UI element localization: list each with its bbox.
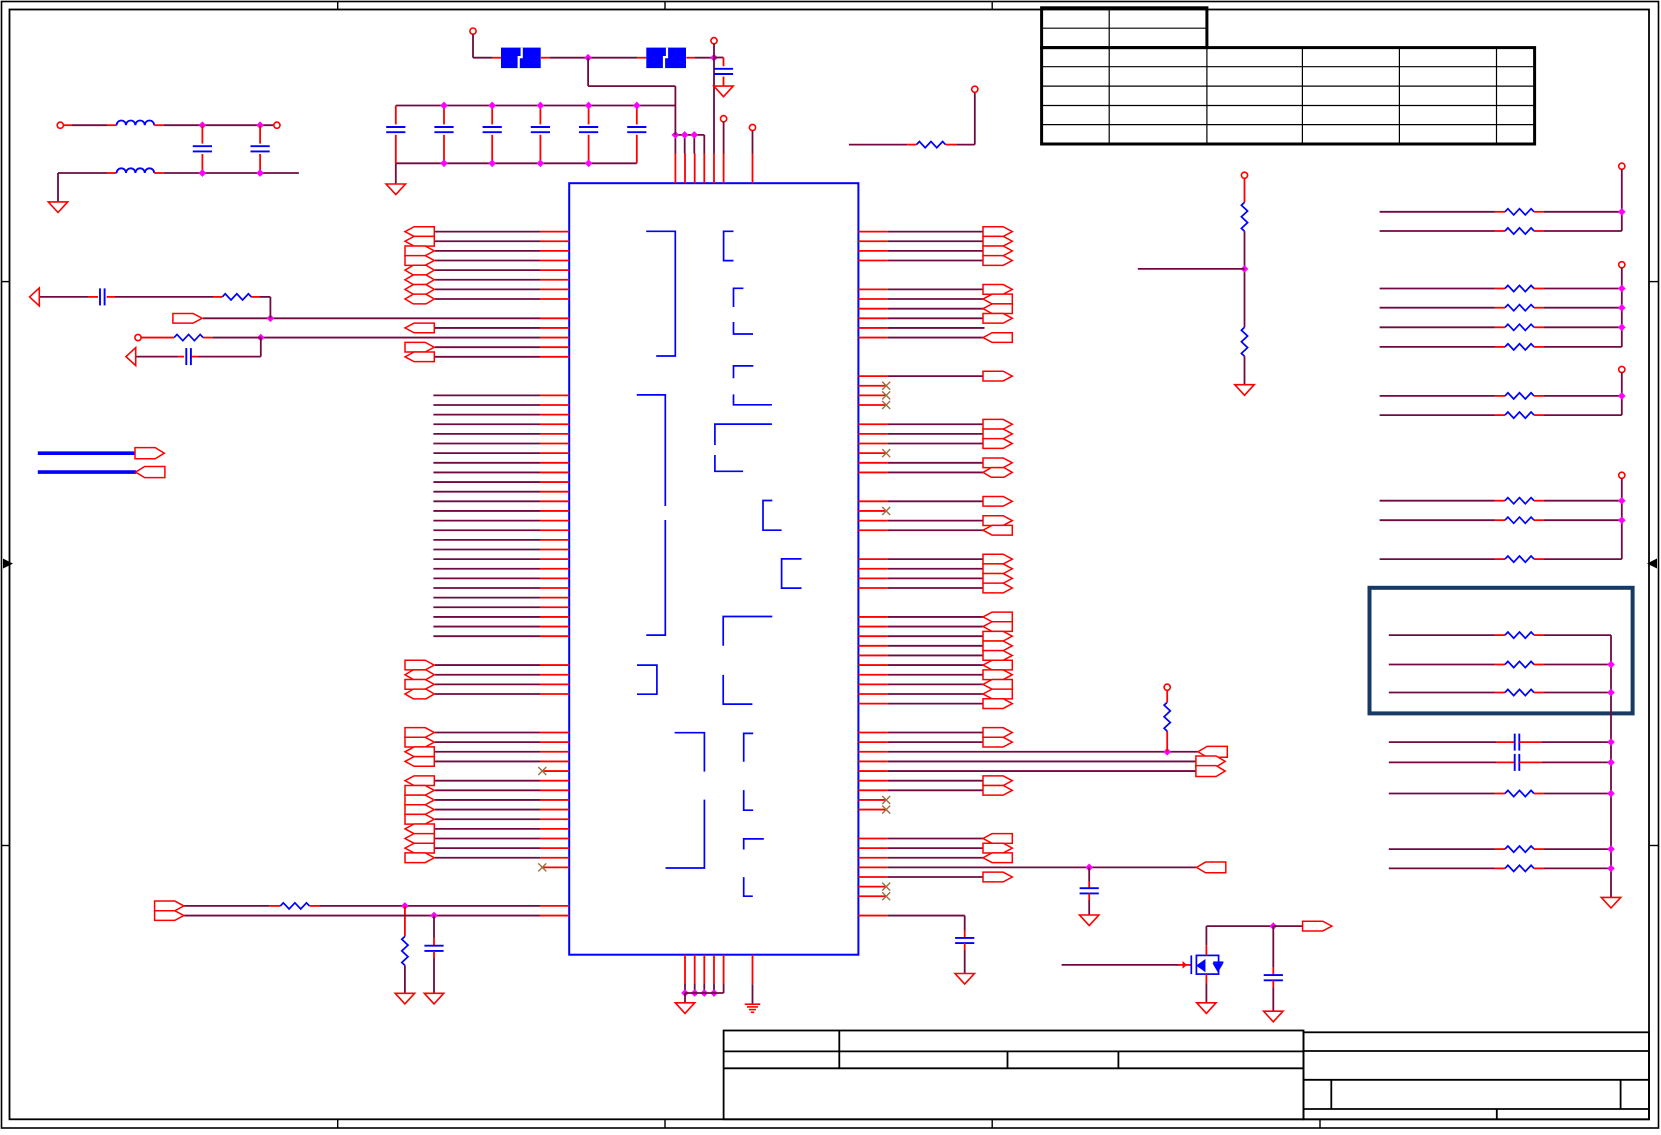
junction [440,102,448,110]
bus signal wire [433,568,540,570]
bus signal wire [433,616,540,618]
connector flag [983,612,1012,622]
centre marker left [3,559,13,569]
pin stub [540,452,569,454]
border zone tick top 3 [991,2,993,10]
bus signal wire [433,394,540,396]
connector flag [983,641,1012,651]
pin stub [540,404,569,406]
connector flag [983,574,1012,584]
resistor [1505,846,1534,852]
bus wire [38,451,136,455]
pin stub [858,857,887,859]
bus signal wire [433,491,540,493]
source stub [1205,974,1207,983]
wire [964,950,966,974]
termination resistor wire [1380,395,1495,397]
wire [433,916,435,939]
ground [955,974,974,985]
connector flag [405,680,434,690]
junction [633,102,641,110]
border zone tick bottom 3 [991,1119,993,1128]
no-connect [882,806,890,814]
connector flag [983,304,1012,314]
U1 internal bracket C3 [734,322,754,334]
border zone tick top 1 [337,2,339,10]
long net wire [888,866,1197,868]
connector flag [983,554,1012,564]
junction [681,131,689,139]
pin stub [540,481,569,483]
resistor [1505,661,1534,667]
no-connect pin stub [542,770,569,772]
pin stub [540,799,569,801]
pin stub [858,664,887,666]
wire [684,984,686,993]
wire [713,44,715,58]
pin stub [540,394,569,396]
no-connect [882,883,890,891]
net wire row k9 [203,317,540,319]
U1 right pin net wire [888,635,985,637]
series capacitor wire [1389,741,1496,743]
wire [1544,519,1622,521]
bus signal wire [433,452,540,454]
capacitor C9 [483,127,502,132]
connector flag [983,872,1012,882]
termination resistor [1505,209,1534,215]
connector flag [983,525,1012,535]
wire [1544,414,1622,416]
pin stub [858,645,887,647]
wire [1244,231,1246,327]
connector flag [983,631,1012,641]
pin stub [858,471,887,473]
port [711,38,717,44]
ground [714,86,733,97]
ground [675,1003,694,1014]
U1 left pin net wire [435,683,540,685]
bus signal wire [433,587,540,589]
U1 right pin net wire [888,616,985,618]
capacitor C4 [1080,888,1099,893]
net wire [849,144,907,146]
U1 left pin net wire [435,818,540,820]
termination resistor [1505,305,1534,311]
U1 right pin net wire [888,847,985,849]
pin stub [858,317,887,319]
bus signal wire [433,558,540,560]
U1 right pin net wire [888,529,985,531]
junction [257,334,265,342]
connector flag [983,516,1012,526]
capacitor C13 [193,146,212,151]
wire [1621,479,1623,560]
pin stub [540,635,569,637]
connector flag [405,323,434,333]
pin stub [540,828,569,830]
connector flag [983,256,1012,266]
wire [1088,867,1090,881]
resistor R1 [222,294,251,300]
net wire [888,915,965,917]
connector flag [983,660,1012,670]
junction [1618,516,1626,524]
capacitor C3 [424,946,443,951]
connector flag [405,776,434,786]
U1 right pin net wire [888,626,985,628]
connector flag [405,352,434,362]
border zone tick top 2 [664,2,666,10]
bus signal wire [433,481,540,483]
termination resistor wire [1380,326,1495,328]
capacitor [1515,754,1520,771]
U1 right pin net wire [888,741,985,743]
U1 right pin net wire [888,645,985,647]
bus connector flag [135,448,164,459]
series resistor wire [1389,692,1495,694]
connector flag [983,458,1012,468]
junction [710,54,718,62]
pin stub [703,955,705,984]
U1 right pin net wire [888,462,985,464]
connector flag [155,901,184,911]
cap pin stub [443,106,445,125]
pin stub [858,587,887,589]
wire [1244,356,1246,385]
wire [674,135,676,154]
pin stub [540,269,569,271]
cap pin stub [395,135,397,164]
connector flag [405,689,434,699]
U1 left pin net wire [435,799,540,801]
ground [1197,1003,1216,1014]
connector flag [983,583,1012,593]
U1 internal bracket C10 [744,733,754,761]
wire [752,131,754,154]
connector flag [983,651,1012,661]
resistor [1505,790,1534,796]
pin stub [858,443,887,445]
series resistor wire [1389,848,1495,850]
pin stub [858,577,887,579]
U1 right pin net wire [888,568,985,570]
U1 left pin net wire [435,789,540,791]
U1 left pin net wire [435,741,540,743]
pin stub [713,955,715,984]
pin stub [1166,731,1168,752]
wire [213,337,261,339]
termination resistor wire [1380,558,1495,560]
pin stub [540,809,569,811]
wire [956,144,974,146]
connector flag [983,737,1012,747]
port [470,28,476,34]
pin stub [540,462,569,464]
junction [199,121,207,129]
series resistor wire [1389,664,1495,666]
highlight box [1370,588,1633,714]
connector flag [405,814,434,824]
U1 left pin net wire [435,847,540,849]
no-connect pin stub [858,799,886,801]
pin stub [540,597,569,599]
U1 right pin net wire [888,240,985,242]
U1 internal bracket C5 [734,394,772,404]
termination resistor wire [1380,519,1495,521]
U1 right pin net wire [888,587,985,589]
U1 left pin net wire [435,837,540,839]
junction [488,102,496,110]
resistor R4 [402,936,408,965]
connector flag [983,439,1012,449]
U1 right pin net wire [888,837,985,839]
termination resistor [1505,344,1534,350]
U1 right pin net wire [888,471,985,473]
connector flag [983,246,1012,256]
U1 right pin net wire [888,375,985,377]
termination resistor wire [1380,307,1495,309]
termination resistor wire [1380,230,1495,232]
pin stub [858,375,887,377]
U1 right pin net wire [888,789,985,791]
junction [256,121,264,129]
connector flag [405,294,434,304]
junction [585,159,593,167]
wire [1062,964,1180,966]
wire [1544,326,1622,328]
capacitor C5 [955,938,974,943]
pin stub [858,259,887,261]
pin stub [540,346,569,348]
connector flag [983,294,1012,304]
cap pin stub [588,106,590,125]
pin stub [540,500,569,502]
U1 left pin net wire [435,809,540,811]
junction [690,131,698,139]
U1 right pin net wire [888,558,985,560]
connector flag [983,785,1012,795]
pin stub [858,250,887,252]
junction [1607,738,1615,746]
junction [1618,304,1626,312]
wire [1621,373,1623,415]
bus signal wire [433,626,540,628]
port [274,122,280,128]
connector flag [983,285,1012,295]
cap pin stub [443,135,445,164]
connector flag [405,747,434,757]
U1 right pin net wire [888,327,985,329]
U1 internal bracket B2 [637,395,666,506]
U1 right pin net wire [888,423,985,425]
pin stub [858,616,887,618]
connector flag [173,313,202,323]
wire [39,296,88,298]
pin stub [540,837,569,839]
connector flag [405,785,434,795]
wire [723,984,725,993]
bus signal wire [433,471,540,473]
cap pin stub [491,135,493,164]
U1 left pin net wire [435,828,540,830]
junction [1607,865,1615,873]
pin stub [540,751,569,753]
junction [681,989,689,997]
junction [1607,689,1615,697]
ferrite bead FB2 [646,48,686,69]
border zone tick left 2 [2,845,10,847]
bus signal wire [433,500,540,502]
pin stub [540,789,569,791]
wire [1542,741,1611,743]
termination resistor [1505,393,1534,399]
resistor [1505,865,1534,871]
wire [473,57,492,59]
pin stub [723,77,725,87]
connector flag [155,911,184,921]
port [749,124,755,130]
connector flag [405,843,434,853]
connector flag [405,342,434,352]
capacitor C11 [579,127,598,132]
junction [585,102,593,110]
pin stub [540,510,569,512]
bus signal wire [433,443,540,445]
connector flag [405,795,434,805]
wire [320,905,540,907]
pin stub [540,905,569,907]
bus signal wire [433,433,540,435]
pin stub [694,154,696,184]
off-page connector [126,348,136,366]
U1 right pin net wire [888,703,985,705]
pin stub [540,279,569,281]
U1 left pin net wire [435,664,540,666]
series resistor wire [1389,793,1495,795]
connector flag [405,275,434,285]
pin stub [540,674,569,676]
port [721,116,727,122]
U1 internal bracket C11 [744,790,754,810]
connector flag [983,236,1012,246]
no-connect pin stub [858,394,886,396]
pin stub [540,847,569,849]
wire [1544,848,1611,850]
pin stub [858,876,887,878]
U1 internal bracket B4 [675,733,705,772]
connector flag [405,236,434,246]
U1 left pin net wire [435,693,540,695]
ground [1080,915,1099,926]
pin stub [858,741,887,743]
U1 right pin net wire [888,308,985,310]
wire [964,916,966,931]
U1 left pin net wire [435,250,540,252]
pin stub [858,288,887,290]
long net wire [888,770,1196,772]
wire [588,85,675,87]
U1 right pin net wire [888,654,985,656]
U1 right pin net wire [888,250,985,252]
connector flag [405,246,434,256]
junction [710,989,718,997]
transistor Q1 [1191,955,1223,974]
pin stub [540,443,569,445]
pin stub [540,298,569,300]
connector flag [405,728,434,738]
cap pin stub [539,106,541,125]
pin stub [858,732,887,734]
wire [703,984,705,993]
pin stub [540,683,569,685]
junction [1269,922,1277,930]
connector flag [405,670,434,680]
connector flag [405,824,434,834]
connector flag [983,834,1012,844]
pin stub [858,433,887,435]
pin stub [858,626,887,628]
capacitor C1 [100,288,105,305]
pin stub [540,520,569,522]
junction [1163,748,1171,756]
wire [1621,268,1623,347]
connector flag [983,670,1012,680]
capacitor C15 [1264,975,1283,980]
pin stub [540,915,569,917]
bus signal wire [433,414,540,416]
pin stub [684,955,686,984]
connector flag [405,265,434,275]
no-connect pin stub [858,809,886,811]
pin stub [674,154,676,184]
wire [395,163,397,184]
junction [256,169,264,177]
port [135,334,141,340]
pin stub [694,955,696,984]
cap pin stub [636,135,638,164]
connector flag [1196,756,1225,767]
border zone tick right 1 [1649,281,1659,283]
pin stub [858,837,887,839]
no-connect [538,863,546,871]
connector flag [983,371,1012,381]
pin stub [540,423,569,425]
no-connect pin stub [858,895,886,897]
wire [1610,635,1612,897]
junction [430,912,438,920]
connector flag [983,728,1012,738]
connector flag [983,853,1012,863]
no-connect pin stub [858,886,886,888]
cap pin stub [201,154,203,173]
connector flag [405,805,434,815]
U1 right pin net wire [888,664,985,666]
port [1241,172,1247,178]
junction [1085,864,1093,872]
pin stub [858,568,887,570]
bus signal wire [433,577,540,579]
bus wire [38,470,136,474]
wire [1544,346,1622,348]
bus signal wire [433,510,540,512]
wire [57,173,59,202]
pin stub [540,857,569,859]
pin stub [1244,178,1246,202]
wire [714,57,724,59]
U1 internal bracket C8 [782,559,802,588]
termination resistor wire [1380,288,1495,290]
